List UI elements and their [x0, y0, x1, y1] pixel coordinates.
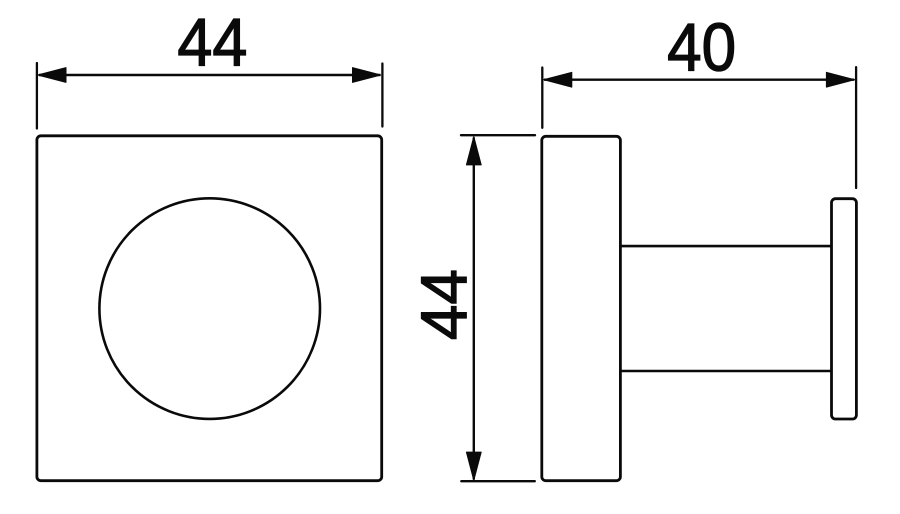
stem top line — [620, 245, 831, 248]
arrowhead up (side 44) — [466, 137, 481, 165]
extension line top (side 44 dim) — [461, 134, 535, 136]
front view faceplate (square) — [37, 136, 382, 481]
arrowhead right (front 44) — [353, 68, 381, 83]
dimension line (front 44) — [39, 74, 380, 76]
dimension line (40) — [544, 78, 854, 80]
wall plate rectangle — [832, 199, 857, 419]
extension line left (40 dim) — [541, 68, 543, 128]
dimension line (side 44, vertical) — [473, 138, 475, 480]
svg-text:44: 44 — [177, 4, 247, 80]
knob circle — [99, 198, 320, 419]
arrowhead left (40) — [544, 72, 572, 87]
extension line left (front 44 dim) — [36, 63, 38, 129]
arrowhead left (front 44) — [38, 68, 66, 83]
extension line right (front 44 dim) — [381, 64, 383, 127]
extension line bottom (side 44 dim) — [461, 480, 535, 482]
svg-text:40: 40 — [667, 9, 736, 85]
stem bottom line — [620, 370, 831, 373]
arrowhead right (40) — [826, 72, 854, 87]
extension line right (40 dim) — [855, 67, 857, 188]
arrowhead down (side 44) — [466, 452, 481, 480]
svg-text:44: 44 — [407, 269, 480, 340]
side view body rectangle — [542, 136, 621, 480]
